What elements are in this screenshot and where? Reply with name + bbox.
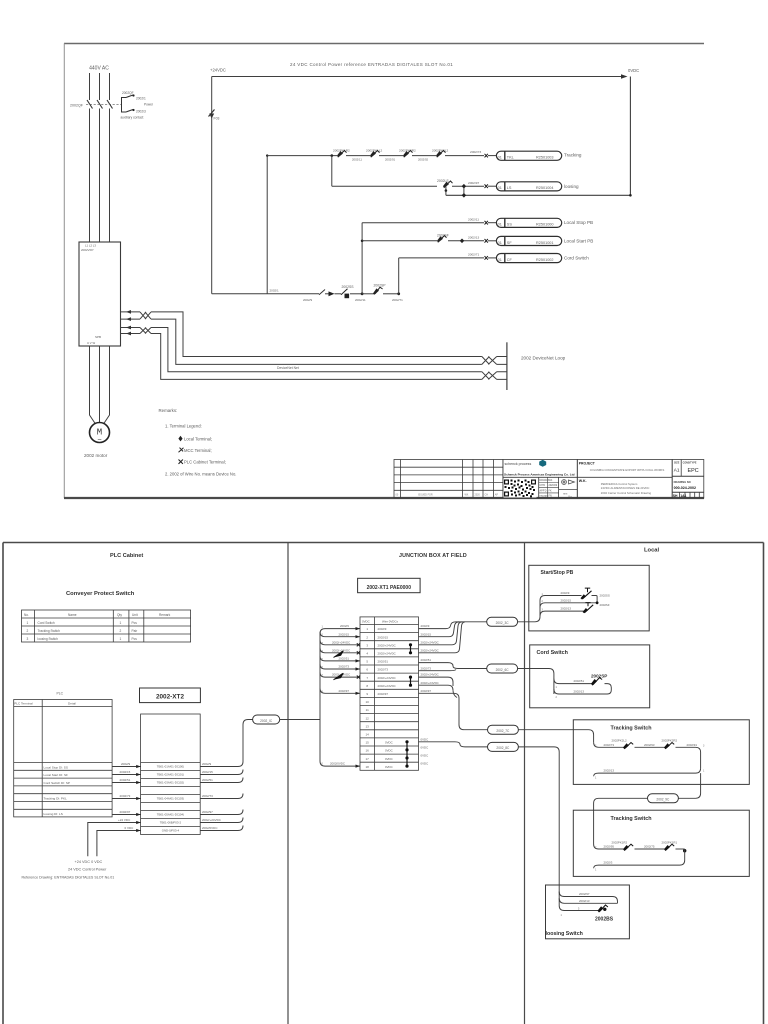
switch 2002BS <box>595 905 614 923</box>
svg-text:PLC Terminal: PLC Terminal <box>14 702 33 706</box>
svg-text:2002SS: 2002SS <box>600 593 610 597</box>
svg-text:2002/15: 2002/15 <box>421 632 432 636</box>
DeviceNet wire 1 from VFD <box>121 310 141 314</box>
svg-text:Cord Switch: Cord Switch <box>564 255 589 260</box>
svg-text:2002/71: 2002/71 <box>468 253 479 257</box>
svg-text:Cord Switch: Cord Switch <box>537 650 568 656</box>
svg-text:+24VDC: +24VDC <box>210 68 226 73</box>
box Tracking Switch 2 <box>573 810 749 876</box>
wire 2002/13 lower tracking <box>594 768 701 776</box>
terminal table 2002-XT1 <box>360 617 419 770</box>
svg-text:0VDC: 0VDC <box>421 737 429 741</box>
wire 2002/97 loosing <box>559 892 617 904</box>
twisted pair symbol left pair A <box>140 312 151 319</box>
node corner dot <box>266 154 268 156</box>
XT1 header <box>362 619 398 623</box>
svg-text:18: 18 <box>366 765 370 769</box>
svg-text:DeviceNet Net: DeviceNet Net <box>277 366 299 370</box>
svg-text:2002SS: 2002SS <box>342 285 355 289</box>
svg-text:10: 10 <box>366 700 370 704</box>
wire down to lower tracking2 <box>594 849 685 868</box>
svg-text:PLC Cabinet: PLC Cabinet <box>110 553 143 559</box>
svg-text:PROJECT: PROJECT <box>579 461 596 465</box>
svg-text:2002 motor: 2002 motor <box>84 453 108 458</box>
svg-text:2002/15: 2002/15 <box>561 598 572 602</box>
svg-text:11: 11 <box>366 708 369 712</box>
svg-text:2002/1: 2002/1 <box>270 289 280 293</box>
svg-text:2002/9: 2002/9 <box>202 762 212 766</box>
wire phase L3 <box>109 73 111 100</box>
svg-text:2002/71: 2002/71 <box>392 298 403 302</box>
wire phase L1 <box>89 73 91 100</box>
svg-text:TB01-02A/01-DC(01): TB01-02A/01-DC(01) <box>157 773 184 777</box>
direction arrow lower <box>334 673 345 680</box>
node diamond upper <box>462 184 467 189</box>
svg-text:2002/0VDC: 2002/0VDC <box>330 762 345 766</box>
DeviceNet wire 4 from VFD <box>121 332 141 336</box>
auxiliary contact 2002QF <box>121 91 154 120</box>
switch 2002PK1L2 <box>366 149 403 158</box>
svg-text:Local Terminal;: Local Terminal; <box>184 437 212 442</box>
svg-text:Tracking Switch: Tracking Switch <box>38 629 61 633</box>
svg-text:2020/09: 2020/09 <box>549 484 558 487</box>
svg-text:2002/97: 2002/97 <box>579 892 590 896</box>
svg-text:Wire 0VDCs: Wire 0VDCs <box>382 619 398 623</box>
section divider PLC cabinet / junction box <box>287 543 289 1024</box>
box Start/Stop PB <box>529 565 649 631</box>
svg-text:2002/51: 2002/51 <box>202 778 213 782</box>
wire DeviceNet 1 corner <box>151 312 482 357</box>
DeviceNet wire 2 from VFD <box>121 317 141 321</box>
DeviceNet wire 3 from VFD <box>121 326 141 330</box>
svg-text:DRAWING NO: DRAWING NO <box>674 480 691 484</box>
node junction 2002/71 <box>397 292 400 295</box>
svg-text:+24 VDC 0 VDC: +24 VDC 0 VDC <box>75 860 103 864</box>
svg-text:2002/15: 2002/15 <box>202 770 213 774</box>
svg-text:2002/75: 2002/75 <box>644 845 655 849</box>
wire riser to cord rung <box>398 258 400 294</box>
svg-text:CF: CF <box>507 258 513 262</box>
svg-text:2002/11: 2002/11 <box>352 158 362 162</box>
svg-text:Local Stop PB: Local Stop PB <box>564 220 593 225</box>
jumper terminals 15-18 <box>405 740 408 768</box>
outgoing bundle rows1-4 to 2002_3C <box>419 622 487 653</box>
svg-text:Remark: Remark <box>159 613 171 617</box>
QR code <box>504 479 537 498</box>
node dot tracking2 <box>683 849 686 852</box>
node diamond lower <box>462 193 467 198</box>
svg-text:1: 1 <box>27 621 29 625</box>
svg-text:0VDC: 0VDC <box>362 619 370 623</box>
conductor numbers box1 <box>595 745 705 780</box>
wire DeviceNet 4 corner <box>151 334 482 380</box>
motor M 2002 <box>90 423 110 445</box>
terminal strip 2002-XT2 <box>141 714 201 835</box>
jumper terminals 7-8 <box>409 676 412 687</box>
svg-text:2002QF: 2002QF <box>122 91 134 95</box>
svg-text:2002/51: 2002/51 <box>339 657 350 661</box>
svg-text:M: M <box>97 428 102 438</box>
wire into relay <box>488 155 496 157</box>
terminal mark PLC cabinet (loosing) <box>485 184 488 188</box>
svg-text:Pair: Pair <box>132 629 139 633</box>
wire 0VDC supply <box>97 826 141 856</box>
terminal mark PLC cabinet (stop) <box>485 221 488 225</box>
svg-text:3: 3 <box>27 637 29 641</box>
switch 2002PK1R2 <box>333 149 370 158</box>
terminal mark PLC cabinet (start) <box>485 239 488 243</box>
node junction 2002/11 <box>361 292 364 295</box>
cord wire labels <box>574 679 585 693</box>
svg-text:2002-XT1 PAE0000: 2002-XT1 PAE0000 <box>367 585 412 591</box>
svg-text:ISSUED FOR: ISSUED FOR <box>418 493 433 496</box>
svg-text:PLC Cabinet Terminal;: PLC Cabinet Terminal; <box>184 460 226 465</box>
svg-text:2002/+24VDC: 2002/+24VDC <box>421 648 439 652</box>
svg-text:0VDC: 0VDC <box>385 741 393 745</box>
wire PLC to XT2 2002/51 <box>112 778 141 783</box>
svg-text:R2501003: R2501003 <box>536 156 554 160</box>
wire into relay <box>488 257 496 259</box>
node junction tracking/loosing <box>331 154 334 157</box>
svg-text:SF: SF <box>507 241 513 245</box>
svg-text:Kg: Kg <box>569 494 573 498</box>
wire phase L3 lower <box>109 109 111 243</box>
svg-text:2002/+24VDC: 2002/+24VDC <box>332 640 350 644</box>
svg-text:TB01-05A/01-DC(04): TB01-05A/01-DC(04) <box>157 813 184 817</box>
svg-text:CH: CH <box>485 493 489 496</box>
twisted pair symbol right pair B <box>482 372 507 380</box>
svg-text:2002/73: 2002/73 <box>470 150 481 154</box>
wire 2002/13 loosing <box>559 898 617 903</box>
pushbutton 2002SF <box>583 603 610 614</box>
svg-text:2002/51: 2002/51 <box>421 658 432 662</box>
wire PLC to XT2 2002/9 <box>112 762 141 767</box>
svg-text:0VDC: 0VDC <box>421 754 429 758</box>
wire tracking rung feed <box>267 155 337 157</box>
svg-text:EPC: EPC <box>688 468 699 474</box>
conductor numbers loosing <box>561 908 581 918</box>
svg-text:CH'D: CH'D <box>540 484 546 487</box>
svg-text:Tracking Switch: Tracking Switch <box>611 816 652 822</box>
node diamond start <box>460 239 465 244</box>
switch 2002PK2L2 <box>432 149 484 158</box>
svg-text:loosing Switch: loosing Switch <box>546 931 583 937</box>
sheet frame page 2 <box>3 543 764 1024</box>
labels rows5-6 right <box>421 658 432 670</box>
svg-text:2002/+24VDC: 2002/+24VDC <box>202 818 222 822</box>
svg-text:2002/97: 2002/97 <box>339 689 350 693</box>
svg-text:WK: WK <box>465 493 469 496</box>
fan wire labels <box>330 624 350 766</box>
svg-text:2002VFP: 2002VFP <box>81 248 94 252</box>
cable tag 2002_9C <box>648 794 679 803</box>
breaker 2002QF <box>70 100 122 109</box>
svg-text:Tracking DI: PKL: Tracking DI: PKL <box>44 797 68 801</box>
projection symbol cell <box>559 480 578 490</box>
wire riser to stop/start rungs <box>361 223 363 294</box>
svg-text:Detail: Detail <box>68 702 76 706</box>
svg-text:2002/13: 2002/13 <box>561 607 572 611</box>
svg-text:Power: Power <box>144 103 154 107</box>
relay coil R2501004 <box>496 182 561 191</box>
svg-text:Start/Stop PB: Start/Stop PB <box>541 570 574 576</box>
wire stub loosing third <box>559 906 599 911</box>
svg-text:01: 01 <box>498 241 502 245</box>
svg-text:1. Terminal Legend:: 1. Terminal Legend: <box>165 424 202 429</box>
svg-text:2002/13: 2002/13 <box>468 235 479 239</box>
wire bottom rail <box>212 293 319 295</box>
svg-text:2002/+24VDC: 2002/+24VDC <box>378 676 396 680</box>
node DeviceNet trunk bar <box>506 342 508 390</box>
wire stub left <box>445 186 447 195</box>
svg-text:2020: 2020 <box>475 493 481 496</box>
svg-text:MCC Terminal;: MCC Terminal; <box>184 448 212 453</box>
svg-text:2002PK1R2: 2002PK1R2 <box>333 149 350 153</box>
svg-text:TB01-01A/01-DC(00): TB01-01A/01-DC(00) <box>157 765 184 769</box>
svg-text:A1: A1 <box>674 468 680 473</box>
box loosing Switch <box>546 885 630 939</box>
pushbutton 2002SS <box>581 588 610 603</box>
svg-text:2002/93: 2002/93 <box>644 743 655 747</box>
switch 2002SF start pushbutton <box>437 233 484 242</box>
svg-text:Unit: Unit <box>132 613 138 617</box>
svg-text:Pcs: Pcs <box>132 637 138 641</box>
wire 9C to tracking box 2 <box>594 798 648 844</box>
svg-text:U V W: U V W <box>87 341 95 345</box>
wire DeviceNet 2 corner <box>151 319 482 364</box>
svg-text:0VDC: 0VDC <box>385 765 393 769</box>
title block: project cell <box>577 460 672 499</box>
sheet frame page 1 <box>64 44 704 499</box>
svg-text:R2501001: R2501001 <box>536 241 554 245</box>
svg-text:PLC: PLC <box>57 692 64 696</box>
wire drop to loosing rung <box>331 156 333 187</box>
svg-text:APP'D: APP'D <box>540 489 547 492</box>
incoming fan from 2002_IC to XT1 <box>320 629 360 767</box>
svg-text:2002/51: 2002/51 <box>378 660 389 664</box>
revision row text <box>396 493 499 496</box>
wire 2002/73 upper tracking <box>594 742 624 747</box>
svg-text:R2501000: R2501000 <box>536 223 554 227</box>
svg-text:2002/97: 2002/97 <box>202 810 213 814</box>
svg-text:2002LS: 2002LS <box>437 179 449 183</box>
svg-text:2002-XT2: 2002-XT2 <box>156 694 185 701</box>
svg-text:~: ~ <box>97 437 101 444</box>
svg-text:2002/97: 2002/97 <box>378 692 389 696</box>
wire 2002/95 upper tracking2 <box>594 844 624 849</box>
svg-text:2002/+24VDC: 2002/+24VDC <box>421 681 439 685</box>
cable tag 2002_IC <box>253 715 280 724</box>
svg-text:TB01-04A/01-DC(03): TB01-04A/01-DC(03) <box>157 797 184 801</box>
svg-text:0VDC: 0VDC <box>421 762 429 766</box>
wire tracking box1 to 9C <box>678 773 700 798</box>
svg-text:2002 DeviceNet Loop: 2002 DeviceNet Loop <box>521 356 566 361</box>
svg-text:2002/+24VDC: 2002/+24VDC <box>421 640 439 644</box>
wire DeviceNet 3 corner <box>151 328 482 372</box>
svg-text:Schenck Process Americas Engin: Schenck Process Americas Engineering Co.… <box>504 472 575 476</box>
svg-text:2002_7C: 2002_7C <box>496 729 510 733</box>
box Tracking Switch 1 <box>573 720 749 785</box>
labels rows1-4 right <box>421 624 439 652</box>
wire PLC to XT2 2002/15 <box>112 770 141 775</box>
svg-text:2002/51: 2002/51 <box>120 778 131 782</box>
section divider junction box / local <box>524 543 526 1024</box>
svg-text:1: 1 <box>120 637 122 641</box>
svg-text:2002/15: 2002/15 <box>378 635 389 639</box>
svg-text:2002_6C: 2002_6C <box>496 668 510 672</box>
labels rows15-18 right <box>421 737 429 765</box>
wire end arrows at XT2 edge <box>136 765 140 832</box>
svg-text:2. 2002 of Wire No. means De: 2. 2002 of Wire No. means Device No. <box>165 472 236 477</box>
terminal x-mark row4 <box>357 651 360 654</box>
relay coil R2501001 <box>496 236 561 245</box>
svg-text:2002/73: 2002/73 <box>378 668 389 672</box>
svg-text:CONS/TYPE: CONS/TYPE <box>683 462 697 465</box>
terminal mark PLC cabinet (cord) <box>485 256 488 260</box>
svg-text:loosing: loosing <box>564 184 579 189</box>
svg-text:440V AC: 440V AC <box>89 66 109 72</box>
logo gem <box>539 460 546 467</box>
svg-text:01: 01 <box>498 156 502 160</box>
svg-text:WK: WK <box>549 479 553 482</box>
wire 2002/13 return loop <box>554 689 611 694</box>
switch 2002PK2L2 <box>612 739 666 750</box>
svg-text:2002_IC: 2002_IC <box>260 719 273 723</box>
svg-text:2002/+24VDC: 2002/+24VDC <box>378 643 396 647</box>
wire +24VDC drop <box>211 77 213 294</box>
outgoing bundle rows5-6 to 2002_6C <box>419 663 487 671</box>
svg-text:15: 15 <box>366 741 370 745</box>
svg-text:2002/9: 2002/9 <box>340 624 349 628</box>
svg-text:1: 1 <box>120 621 122 625</box>
svg-text:17: 17 <box>366 757 370 761</box>
svg-text:L1 L2 L3: L1 L2 L3 <box>85 244 96 248</box>
title block: revision table <box>394 460 503 499</box>
svg-text:2002/3: 2002/3 <box>604 861 613 865</box>
svg-text:Cord Switch: Cord Switch <box>38 621 55 625</box>
svg-text:R2501004: R2501004 <box>536 186 554 190</box>
relay coil R2501002 <box>496 254 561 263</box>
svg-text:24 VDC Control Power: 24 VDC Control Power <box>68 867 107 871</box>
wire PLC to XT2 2002/73 <box>112 794 141 799</box>
svg-text:2002QF: 2002QF <box>70 104 84 108</box>
svg-text:0 VDC: 0 VDC <box>125 826 135 830</box>
cable 2002_3C to start/stop box <box>518 596 582 622</box>
svg-text:Pcs: Pcs <box>132 621 138 625</box>
wire 2002/51 loop <box>554 679 592 684</box>
outgoing bundle rows7-9 to 2002_7C <box>419 677 488 730</box>
svg-text:2002/+24VDC: 2002/+24VDC <box>378 652 396 656</box>
svg-text:2002/73: 2002/73 <box>339 665 350 669</box>
svg-text:SIZE: SIZE <box>674 462 680 465</box>
wire motor W <box>104 346 110 424</box>
svg-text:2002/+24VDC: 2002/+24VDC <box>421 673 439 677</box>
svg-text:schenck process: schenck process <box>505 462 532 466</box>
svg-text:2002/1: 2002/1 <box>136 97 146 101</box>
svg-text:LS: LS <box>507 186 512 190</box>
wire 2002/15 <box>540 603 596 608</box>
svg-text:2002/11: 2002/11 <box>355 298 366 302</box>
svg-text:Local Start DI: SF: Local Start DI: SF <box>44 773 69 777</box>
cable tag 2002_6C <box>487 664 518 673</box>
svg-text:2002/11: 2002/11 <box>468 217 479 221</box>
svg-text:2002/97: 2002/97 <box>120 810 131 814</box>
switch 2002PK1R2 <box>612 840 666 851</box>
svg-text:24 VDC Control Power referenc: 24 VDC Control Power reference ENTRADAS … <box>290 62 453 67</box>
svg-text:2002/9: 2002/9 <box>378 627 387 631</box>
cable 2002_7C to tracking box 1 <box>518 730 593 743</box>
svg-text:No.: No. <box>24 613 29 617</box>
svg-text:2002/97: 2002/97 <box>421 689 432 693</box>
svg-text:2002/0VDC: 2002/0VDC <box>202 826 218 830</box>
svg-text:2002PK2R2: 2002PK2R2 <box>662 739 678 743</box>
relay coil R2501003 <box>496 151 561 160</box>
svg-text:12: 12 <box>366 716 370 720</box>
switch 2002PK2R2 <box>399 149 436 158</box>
svg-text:2002BS: 2002BS <box>595 917 614 923</box>
XT1 wire names <box>378 627 396 769</box>
cable tag 2002_3C <box>487 617 518 626</box>
conductor numbers box2 <box>595 846 597 871</box>
svg-text:eng.app: eng.app <box>540 495 549 498</box>
wire stub right <box>463 186 465 195</box>
terminal mark PLC cabinet (tracking) <box>485 154 488 158</box>
XT1 terminal numbers <box>366 627 370 769</box>
svg-text:2002/73: 2002/73 <box>604 743 615 747</box>
cable 2002_6C to cord box <box>518 669 554 695</box>
svg-text:loosing Switch: loosing Switch <box>38 637 59 641</box>
svg-text:01: 01 <box>498 258 502 262</box>
relay coil R2501000 <box>496 218 561 227</box>
wire phase L2 lower <box>99 109 101 243</box>
svg-text:2002/13: 2002/13 <box>579 899 590 903</box>
remarks note block <box>159 408 237 477</box>
svg-text:auxiliary contact: auxiliary contact <box>121 116 144 120</box>
svg-text:0VDC: 0VDC <box>628 68 639 73</box>
svg-text:TB01-06B/F03-2: TB01-06B/F03-2 <box>160 821 182 825</box>
wire into relay <box>488 185 496 187</box>
jumper terminals 3-4 <box>409 643 412 654</box>
svg-text:24VDC ALIMENTACIONES DE 24VDC: 24VDC ALIMENTACIONES DE 24VDC <box>601 486 650 490</box>
svg-text:2002/97: 2002/97 <box>468 181 479 185</box>
title block: size / type cells <box>672 460 704 499</box>
svg-text:R2501002: R2501002 <box>536 258 554 262</box>
svg-text:2002/9: 2002/9 <box>303 298 313 302</box>
svg-text:Local Start PB: Local Start PB <box>564 238 593 243</box>
svg-text:13: 13 <box>366 724 370 728</box>
wire phase L2 <box>99 73 101 100</box>
svg-text:Cord Switch DI: SP: Cord Switch DI: SP <box>44 781 70 785</box>
contact disconnect arrow <box>319 290 341 297</box>
wire local stop rung <box>362 222 484 224</box>
wire 0VDC rail <box>629 77 631 196</box>
svg-text:2002_3C: 2002_3C <box>496 621 510 625</box>
wire into relay <box>488 240 496 242</box>
svg-text:TB01-03A/01-DC(02): TB01-03A/01-DC(02) <box>157 781 184 785</box>
svg-text:2002SF: 2002SF <box>600 603 610 607</box>
svg-text:2002/9: 2002/9 <box>561 591 570 595</box>
svg-text:JUNCTION BOX AT FIELD: JUNCTION BOX AT FIELD <box>399 553 467 559</box>
svg-text:SH: SH <box>673 494 678 498</box>
wire motor V <box>99 346 101 423</box>
svg-text:2002/+24VDC: 2002/+24VDC <box>378 684 396 688</box>
svg-text:2002/92: 2002/92 <box>418 158 429 162</box>
svg-text:+24 VDC: +24 VDC <box>118 818 131 822</box>
svg-text:2: 2 <box>120 629 122 633</box>
svg-text:Remarks:: Remarks: <box>159 408 178 413</box>
switch 2002LS <box>437 179 484 188</box>
PLC terminal table <box>14 700 112 817</box>
